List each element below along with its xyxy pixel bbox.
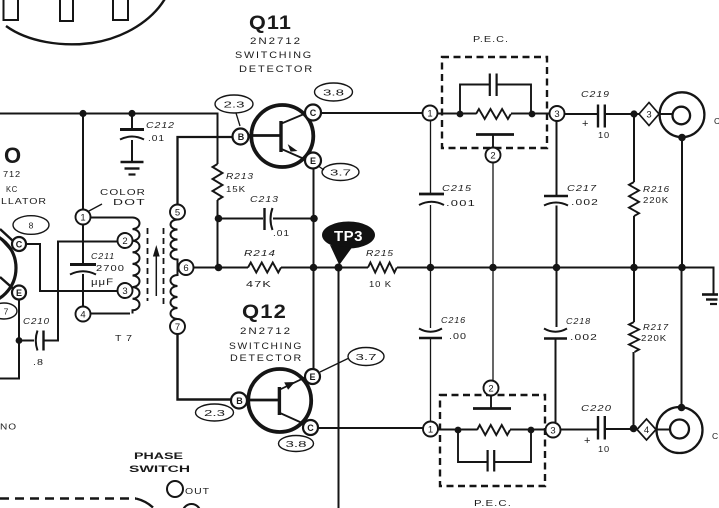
svg-text:C: C [712,431,719,441]
svg-text:E: E [16,288,22,298]
svg-text:PHASE: PHASE [134,451,183,462]
svg-text:TP3: TP3 [334,228,363,245]
svg-text:C: C [307,423,314,433]
svg-text:C: C [16,240,23,250]
svg-text:C211: C211 [91,251,115,261]
svg-text:C220: C220 [581,403,612,413]
svg-text:10 K: 10 K [369,279,392,289]
svg-text:C213: C213 [250,194,279,204]
svg-text:E: E [309,372,315,382]
svg-text:4: 4 [644,425,649,436]
svg-text:DOT: DOT [113,197,146,207]
svg-text:8: 8 [29,221,34,231]
svg-text:C: C [714,116,719,126]
svg-text:7: 7 [175,322,180,333]
svg-text:LLATOR: LLATOR [1,196,47,206]
svg-text:7: 7 [4,307,9,317]
svg-text:15K: 15K [226,184,246,194]
svg-text:+: + [582,118,589,130]
svg-text:3.7: 3.7 [330,168,351,178]
svg-text:Q12: Q12 [242,302,287,323]
svg-text:2N2712: 2N2712 [240,326,292,336]
svg-text:DETECTOR: DETECTOR [239,64,314,74]
svg-text:220K: 220K [641,333,667,343]
svg-text:1: 1 [80,213,85,224]
svg-text:3: 3 [550,426,555,437]
svg-text:C219: C219 [581,89,610,99]
svg-text:C217: C217 [567,183,597,193]
svg-text:712: 712 [3,169,21,179]
svg-text:DETECTOR: DETECTOR [230,353,303,363]
svg-text:1: 1 [428,425,433,436]
svg-text:E: E [310,156,316,166]
svg-text:4: 4 [80,310,85,321]
svg-text:KC: KC [6,184,18,194]
svg-text:3: 3 [646,110,651,121]
svg-text:3.8: 3.8 [286,439,307,449]
svg-text:OUT: OUT [185,486,210,496]
svg-text:5: 5 [175,208,180,219]
svg-text:R216: R216 [643,184,670,194]
svg-text:SWITCHING: SWITCHING [229,341,303,351]
svg-text:.01: .01 [273,228,290,238]
svg-text:Q11: Q11 [249,13,292,34]
svg-text:SWITCHING: SWITCHING [235,50,313,60]
svg-text:220K: 220K [643,195,669,205]
svg-text:R214: R214 [244,248,276,258]
svg-text:2: 2 [490,151,495,162]
svg-text:T 7: T 7 [115,333,133,343]
svg-text:C210: C210 [23,316,50,326]
svg-text:C: C [310,108,317,118]
svg-text:B: B [236,396,243,406]
svg-text:10: 10 [598,444,610,454]
svg-text:.002: .002 [570,332,598,342]
svg-text:R217: R217 [643,322,669,332]
svg-text:μμF: μμF [91,277,114,288]
svg-text:.00: .00 [449,331,467,341]
svg-text:O: O [4,143,21,168]
svg-text:R215: R215 [366,248,394,258]
svg-text:10: 10 [598,130,610,140]
svg-text:47K: 47K [246,279,272,289]
svg-text:.01: .01 [148,133,165,143]
svg-text:P.E.C.: P.E.C. [474,498,512,508]
svg-text:6: 6 [183,263,188,274]
svg-text:R213: R213 [226,171,254,181]
svg-text:3: 3 [554,109,559,120]
svg-text:C218: C218 [566,316,591,326]
svg-text:.002: .002 [571,197,599,207]
svg-text:C215: C215 [442,183,472,193]
svg-text:.001: .001 [446,198,476,208]
svg-text:3.8: 3.8 [323,88,344,98]
svg-text:2700: 2700 [96,263,125,273]
svg-text:NO: NO [0,422,17,432]
svg-text:2.3: 2.3 [204,408,225,418]
svg-text:3: 3 [122,286,127,297]
svg-text:B: B [238,132,245,142]
svg-text:3.7: 3.7 [356,352,377,362]
svg-text:+: + [584,435,591,447]
svg-text:2.3: 2.3 [224,100,245,110]
svg-text:.8: .8 [33,357,44,367]
svg-text:2N2712: 2N2712 [250,36,302,46]
svg-text:C212: C212 [146,120,175,130]
svg-text:SWITCH: SWITCH [129,464,190,475]
svg-text:C216: C216 [441,315,466,325]
svg-text:P.E.C.: P.E.C. [473,34,509,44]
svg-text:2: 2 [122,236,127,247]
svg-text:COLOR: COLOR [100,187,146,197]
svg-text:2: 2 [488,384,493,395]
svg-text:1: 1 [427,109,432,120]
